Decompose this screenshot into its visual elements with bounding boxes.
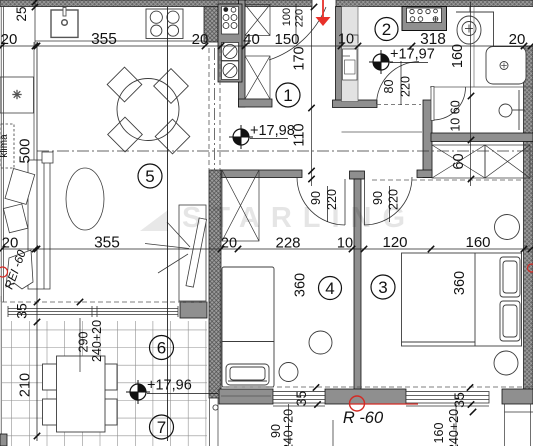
dimension lines — [0, 45, 533, 47]
centerline vertical center — [214, 48, 216, 170]
door arc room3 — [364, 177, 412, 225]
wall hatched pier top center — [204, 7, 221, 43]
elevation marker bath — [373, 54, 389, 70]
rug ellipse — [66, 168, 104, 230]
wall T head — [350, 171, 365, 179]
svg-text:120: 120 — [382, 234, 407, 251]
wardrobe room4 — [222, 170, 259, 241]
svg-text:+17,97: +17,97 — [390, 47, 435, 63]
wall hall-bath vertical — [336, 7, 342, 102]
stove bath top — [402, 7, 447, 31]
wall hatched right vertical — [524, 46, 533, 390]
wall left thin double — [1, 7, 3, 446]
svg-text:3: 3 — [378, 278, 387, 297]
svg-text:160: 160 — [465, 234, 490, 251]
shaft cell lower — [245, 56, 270, 99]
svg-text:2: 2 — [382, 20, 391, 39]
axis vertical line — [167, 7, 169, 441]
svg-text:25: 25 — [14, 6, 29, 21]
wall shaft bottom — [239, 99, 273, 107]
shaft cell upper — [245, 5, 270, 100]
klima unit — [1, 124, 14, 168]
svg-text:35: 35 — [14, 303, 30, 319]
svg-text:20: 20 — [509, 31, 526, 48]
svg-text:220: 220 — [294, 9, 306, 27]
wall top hatched band — [0, 0, 533, 7]
svg-text:220: 220 — [399, 76, 413, 97]
svg-text:80: 80 — [382, 80, 396, 94]
svg-text:6: 6 — [157, 339, 166, 358]
window room3 south — [273, 392, 489, 407]
elevation marker hall — [233, 129, 249, 145]
kitchenette burners — [223, 7, 237, 28]
svg-text:4: 4 — [325, 279, 334, 298]
washer 1 — [222, 43, 239, 61]
wall wc foot — [417, 170, 432, 178]
dashed wall-over lines — [2, 48, 533, 387]
kitchen counter edge — [35, 40, 204, 42]
closet room3 X cells — [432, 145, 530, 178]
svg-text:100: 100 — [281, 8, 293, 26]
wall pier balcony — [180, 302, 207, 318]
door arc room4 — [297, 177, 345, 225]
washbasin alcove — [499, 90, 525, 130]
svg-text:228: 228 — [275, 235, 300, 252]
watermark logo — [140, 210, 168, 231]
balcony right corner lines — [504, 404, 506, 446]
svg-text:170: 170 — [292, 46, 308, 70]
shower tray — [486, 47, 526, 85]
svg-text:290: 290 — [77, 332, 91, 353]
kitchen sink — [51, 8, 78, 38]
door leaf room3 — [364, 179, 366, 225]
wall pier center south — [325, 389, 406, 404]
dining table — [107, 67, 190, 154]
svg-text:35: 35 — [293, 391, 309, 407]
bed room4 — [222, 267, 274, 387]
svg-text:20: 20 — [1, 31, 18, 48]
wall corridor south — [221, 170, 302, 178]
bed room3 — [402, 253, 522, 346]
svg-text:10: 10 — [337, 236, 353, 252]
svg-text:40: 40 — [243, 31, 260, 48]
red R-60 label — [350, 396, 365, 411]
svg-text:20: 20 — [192, 31, 209, 48]
door arc entrance — [269, 7, 326, 60]
svg-text:STARLING: STARLING — [182, 202, 416, 234]
wall corner balcony SW — [0, 434, 7, 446]
svg-text:240+20: 240+20 — [90, 320, 104, 362]
svg-text:360: 360 — [452, 271, 468, 295]
bath counter sink cabinet — [343, 49, 358, 80]
svg-text:+17,98: +17,98 — [250, 123, 295, 139]
svg-text:1: 1 — [283, 86, 292, 105]
svg-text:klima: klima — [0, 134, 10, 158]
pier inner line — [221, 395, 271, 397]
red tick right edge — [528, 264, 533, 272]
washer 2 — [222, 61, 239, 80]
wall wc south — [431, 133, 533, 142]
svg-text:60: 60 — [451, 153, 467, 169]
svg-text:160: 160 — [432, 423, 446, 444]
svg-text:+17,96: +17,96 — [147, 378, 192, 394]
balcony table — [43, 356, 118, 432]
svg-text:240+20: 240+20 — [282, 409, 296, 446]
asterisk box — [0, 77, 34, 113]
svg-text:7: 7 — [157, 418, 166, 437]
sideboard diagonal — [145, 205, 207, 301]
wall pier right south — [502, 389, 533, 404]
wall bath south west segment — [333, 100, 378, 108]
bath divider line — [473, 7, 475, 88]
stool circles room4 — [309, 331, 332, 354]
toilet — [456, 7, 494, 47]
balcony tile grid — [2, 321, 207, 446]
window room4 south — [273, 392, 325, 404]
red entrance triangle — [316, 0, 331, 26]
door arc bath — [377, 62, 420, 105]
wall pier room4 south — [219, 389, 273, 404]
wall shaft left — [239, 0, 246, 107]
svg-text:210: 210 — [18, 373, 34, 397]
svg-text:355: 355 — [91, 31, 117, 48]
svg-text:35: 35 — [451, 392, 467, 408]
door arc wc alcove — [431, 87, 434, 121]
kitchenette frame — [218, 4, 242, 82]
svg-text:160: 160 — [450, 44, 466, 68]
bath counter light band — [342, 7, 359, 102]
bedside circles room3 — [495, 215, 520, 240]
svg-text:500: 500 — [17, 138, 34, 163]
door leaf room4 — [344, 179, 346, 225]
kitchen stove — [146, 9, 183, 39]
svg-text:318: 318 — [420, 31, 446, 48]
svg-text:240+20: 240+20 — [447, 409, 461, 446]
elevation marker balcony — [130, 384, 146, 400]
balcony door pivot — [213, 405, 218, 410]
svg-text:20: 20 — [221, 236, 237, 252]
svg-text:360: 360 — [293, 273, 309, 297]
svg-text:5: 5 — [145, 167, 154, 186]
svg-text:R -60: R -60 — [343, 409, 384, 427]
sofa bed left — [3, 152, 53, 289]
wall room3-4 stem — [354, 179, 361, 390]
svg-text:10: 10 — [338, 32, 354, 48]
window living south slider — [8, 306, 178, 317]
svg-text:10 60: 10 60 — [449, 100, 463, 131]
alcove top line — [430, 86, 533, 88]
room numbers — [276, 83, 300, 107]
svg-text:355: 355 — [94, 235, 120, 252]
wall hatched center vertical — [209, 170, 221, 398]
wall wc vertical — [423, 100, 432, 178]
centerline horizontal — [37, 150, 529, 152]
